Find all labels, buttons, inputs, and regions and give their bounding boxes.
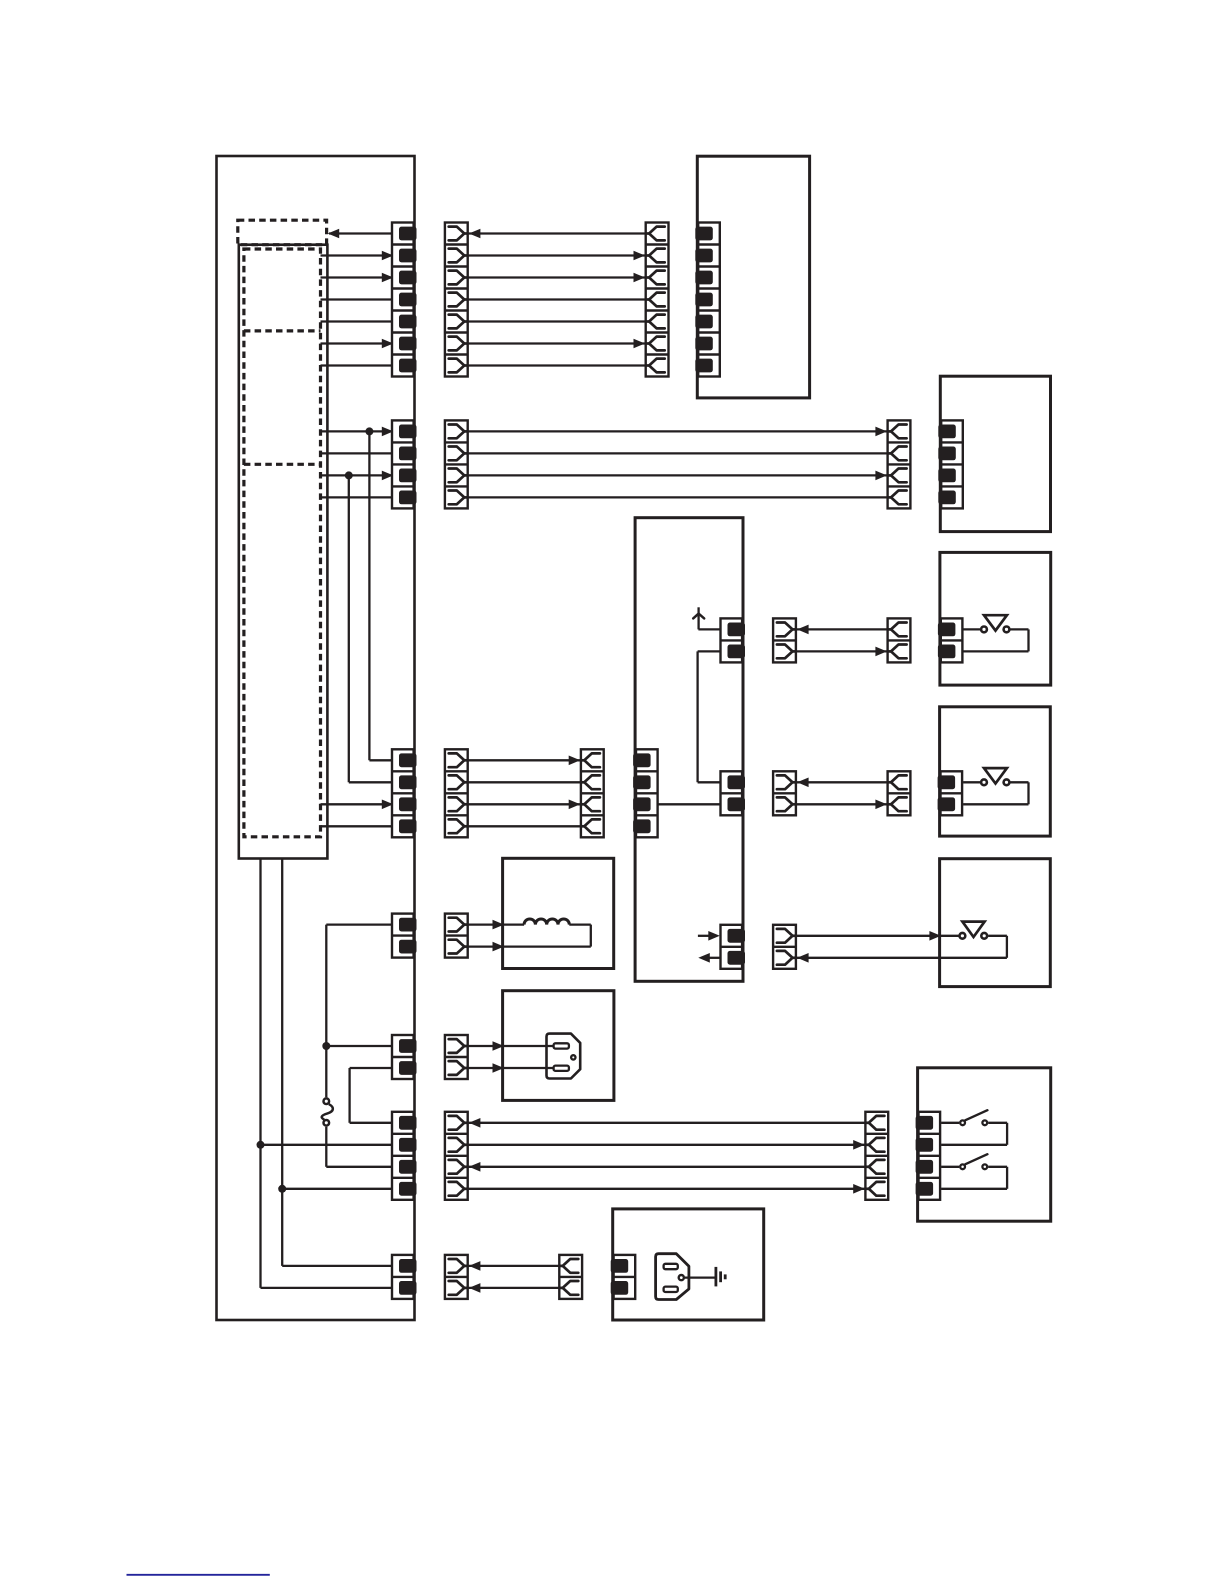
wire E2 to receptacle (arrow right): [468, 1067, 556, 1069]
wire C4: [468, 825, 581, 827]
connector on outlet box (2-pin): [611, 1255, 636, 1299]
wire CN-A1 to dashed block (arrow left): [329, 232, 399, 234]
connector on middle box mid-right (2-pin): [721, 771, 746, 815]
harness connector F2 (female, 4-way): [865, 1112, 888, 1200]
relay contact 2 wiring: [941, 1166, 959, 1168]
wire to CN-C2: [349, 781, 399, 783]
connector CN-C (board, 4-pin): [392, 749, 417, 837]
wire G2 (arrow left): [468, 1287, 560, 1289]
wire to CN-C1: [369, 759, 399, 761]
sensor component box (right, 4-pin): [940, 376, 1050, 531]
connector CN-B (board, 4-pin): [392, 420, 417, 508]
wire G1 (arrow left): [468, 1265, 560, 1267]
door lock coil box: [503, 858, 614, 968]
push switch box 1: [940, 552, 1051, 685]
switch box2 loop wire: [1010, 781, 1028, 783]
wire B2: [468, 452, 888, 454]
vertical wire breaker to F3: [325, 1127, 327, 1167]
bottom outlet box: [613, 1209, 764, 1320]
middle box stub arrow in (row2): [710, 957, 721, 959]
wire F4 (arrow right): [468, 1188, 866, 1190]
dashed divider 1: [244, 329, 321, 332]
junction E1: [322, 1042, 330, 1050]
wire D2 return (arrow right): [468, 945, 591, 947]
wire A6 (arrow right): [468, 342, 646, 344]
switch box2 wire pin1 to switch: [963, 781, 980, 783]
wire A7: [468, 364, 646, 366]
harness connector G2 (female, 2-way): [559, 1255, 582, 1299]
wire to CN-G1: [282, 1265, 399, 1267]
relay box (bottom right): [918, 1068, 1051, 1221]
vertical wire B1 to C1: [368, 431, 370, 760]
main control board outline: [217, 156, 415, 1320]
connector on display board (7-pin): [695, 223, 720, 377]
connector on middle box left (4-pin): [633, 749, 658, 837]
middle box wire: left connector row3 to mid-right pin2: [658, 803, 721, 805]
push switch box 2: [940, 707, 1051, 836]
wire C2: [468, 781, 581, 783]
relay contact K1: [960, 1110, 987, 1125]
harness connector E (female, 2-way): [445, 1035, 468, 1079]
wire CN-B3 (arrow right): [321, 474, 395, 476]
connector on sensor box (4-pin): [938, 420, 963, 508]
dashed block: main microcomputer area: [244, 249, 321, 837]
wire CN-B2: [321, 452, 400, 454]
wire A4: [468, 298, 646, 300]
inner solid block: [239, 245, 328, 859]
harness connector C2 (female, 4-way): [581, 749, 604, 837]
wire B3 (arrow right): [468, 474, 888, 476]
inductor coil L1: [524, 919, 591, 947]
harness connector G (female, 2-way): [445, 1255, 468, 1299]
wire S2 row2 (arrow right): [796, 803, 888, 805]
middle box wire: top-right pin2 lead: [698, 650, 721, 652]
vertical wire E2 to F1: [348, 1068, 350, 1123]
connector CN-G (board, 2-pin): [392, 1255, 417, 1299]
junction F2: [257, 1141, 265, 1149]
wire F3 (arrow left): [468, 1166, 866, 1168]
harness connector A (female, 7-way): [445, 223, 468, 377]
connector on switch box 1 (2-pin): [938, 618, 963, 662]
wire S3 row1 (arrow right into box): [796, 935, 959, 937]
chassis ground symbol: [716, 1267, 725, 1287]
switch box3 loop wire out (arrow left): [988, 935, 1007, 937]
middle box stub arrow out (row1): [698, 935, 711, 937]
connector on middle box bottom-right (2-pin): [721, 925, 746, 969]
vertical wire left bus 2: [281, 859, 283, 1266]
middle box wire: into mid-right pin1: [698, 781, 721, 783]
connector on middle box top-right (2-pin): [721, 618, 746, 662]
push switch box 3: [940, 859, 1051, 987]
connector on relay box (4-pin): [916, 1112, 941, 1200]
wire E1 to receptacle (arrow right): [468, 1045, 556, 1047]
wire CN-B1 (arrow right): [321, 430, 395, 432]
middle box wire: vertical with up arrow: [697, 607, 699, 629]
push switch SW3: [960, 922, 988, 939]
push switch SW2: [981, 768, 1009, 785]
wire to CN-F4: [282, 1188, 399, 1190]
connector on switch box 2 (2-pin): [938, 771, 963, 815]
wire CN-A6 (arrow right): [321, 342, 395, 344]
wire to CN-F3: [326, 1166, 399, 1168]
wire CN-A7: [321, 364, 400, 366]
wire to CN-D1: [326, 923, 399, 925]
wire to CN-E2: [350, 1067, 399, 1069]
harness connector S2-L (2-way): [773, 771, 796, 815]
connector CN-E (board, 2-pin): [392, 1035, 417, 1079]
wire to CN-F1: [350, 1122, 399, 1124]
push switch SW1: [981, 615, 1009, 632]
wire A1 (arrow left): [468, 232, 646, 234]
dispenser/valve middle box: [635, 518, 743, 982]
dashed divider 2: [244, 463, 321, 466]
dashed block: top section: [238, 220, 327, 245]
circuit breaker (thermal protector): [322, 1098, 333, 1125]
harness connector F (female, 4-way): [445, 1112, 468, 1200]
wire CN-C4: [321, 825, 400, 827]
vertical wire left bus 1: [259, 859, 261, 1288]
junction B1: [365, 427, 373, 435]
harness connector D (female, 2-way): [445, 914, 468, 958]
outlet receptacle symbol with ground pin: [656, 1254, 689, 1300]
footer rule (link underline): [127, 1574, 270, 1576]
wire CN-A3 (arrow right): [321, 276, 395, 278]
vertical wire D1 to E1 junction: [325, 925, 327, 1098]
connector CN-D (board, 2-pin): [392, 914, 417, 958]
wire C1 (arrow right): [468, 759, 581, 761]
harness connector B (female, 4-way): [445, 420, 468, 508]
harness connector S1-L (2-way): [773, 618, 796, 662]
middle box wire: vertical pin2 down to mid-right pin1: [696, 651, 698, 782]
wire S1 row1 (arrow left): [796, 628, 888, 630]
ground wire: [685, 1276, 715, 1278]
wire to CN-F2: [261, 1144, 400, 1146]
wire S2 row1 (arrow left): [796, 781, 888, 783]
connector CN-F (board, 4-pin): [392, 1112, 417, 1200]
relay contact K2: [960, 1154, 987, 1169]
wire A5: [468, 320, 646, 322]
switch box1 loop wire: [1010, 628, 1028, 630]
wire D1 to coil (arrow right): [468, 923, 524, 925]
wire F1 (arrow left): [468, 1122, 866, 1124]
wire CN-B4: [321, 496, 400, 498]
harness connector B2 (female, 4-way): [888, 420, 911, 508]
harness connector S2-R (2-way): [888, 771, 911, 815]
wire CN-C3 (arrow right): [321, 803, 395, 805]
wire B1 (arrow right): [468, 430, 888, 432]
vertical wire B3 to C2: [348, 475, 350, 782]
switch box1 wire pin1 to switch: [963, 628, 980, 630]
wire C3 (arrow right): [468, 803, 581, 805]
middle box wire: top-right pin1 lead: [698, 628, 720, 630]
junction F4: [278, 1185, 286, 1193]
wire A3 (arrow right): [468, 276, 646, 278]
wire CN-A5: [321, 320, 400, 322]
display board (top right box): [697, 156, 809, 398]
wire B4: [468, 496, 888, 498]
wire to CN-G2: [261, 1287, 400, 1289]
wire S1 row2 (arrow right): [796, 650, 888, 652]
receptacle symbol (plug face): [547, 1034, 581, 1079]
harness connector A2 (female, 7-way): [646, 223, 669, 377]
wire CN-A2 (arrow right): [321, 254, 395, 256]
relay contact 1 wiring: [941, 1122, 959, 1124]
wire to CN-E1: [326, 1045, 399, 1047]
harness connector C (female, 4-way): [445, 749, 468, 837]
wire F2 (arrow right): [468, 1144, 866, 1146]
connector CN-A (board, 7-pin): [392, 223, 417, 377]
wire CN-A4: [321, 298, 400, 300]
junction B3: [345, 471, 353, 479]
wire A2 (arrow right): [468, 254, 646, 256]
harness connector S3 (2-way): [773, 925, 796, 969]
harness connector S1-R (2-way): [888, 618, 911, 662]
power plug box: [503, 991, 614, 1101]
